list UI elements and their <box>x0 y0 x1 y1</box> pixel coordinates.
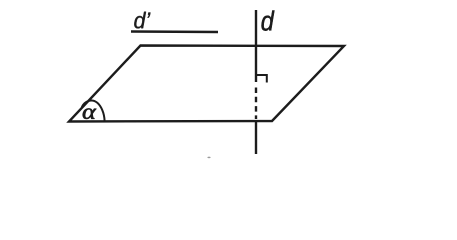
plane alpha (parallelogram) <box>69 46 344 122</box>
label alpha <box>83 108 96 119</box>
label d' <box>134 12 150 29</box>
angle alpha arc <box>82 101 105 121</box>
line d' <box>131 30 218 33</box>
line d (hidden dashed part) <box>255 88 257 120</box>
label d <box>261 11 274 31</box>
right-angle mark <box>257 75 267 83</box>
speck artifact <box>207 157 210 159</box>
line d (upper solid part) <box>255 10 257 82</box>
line d (lower solid part) <box>255 120 257 154</box>
